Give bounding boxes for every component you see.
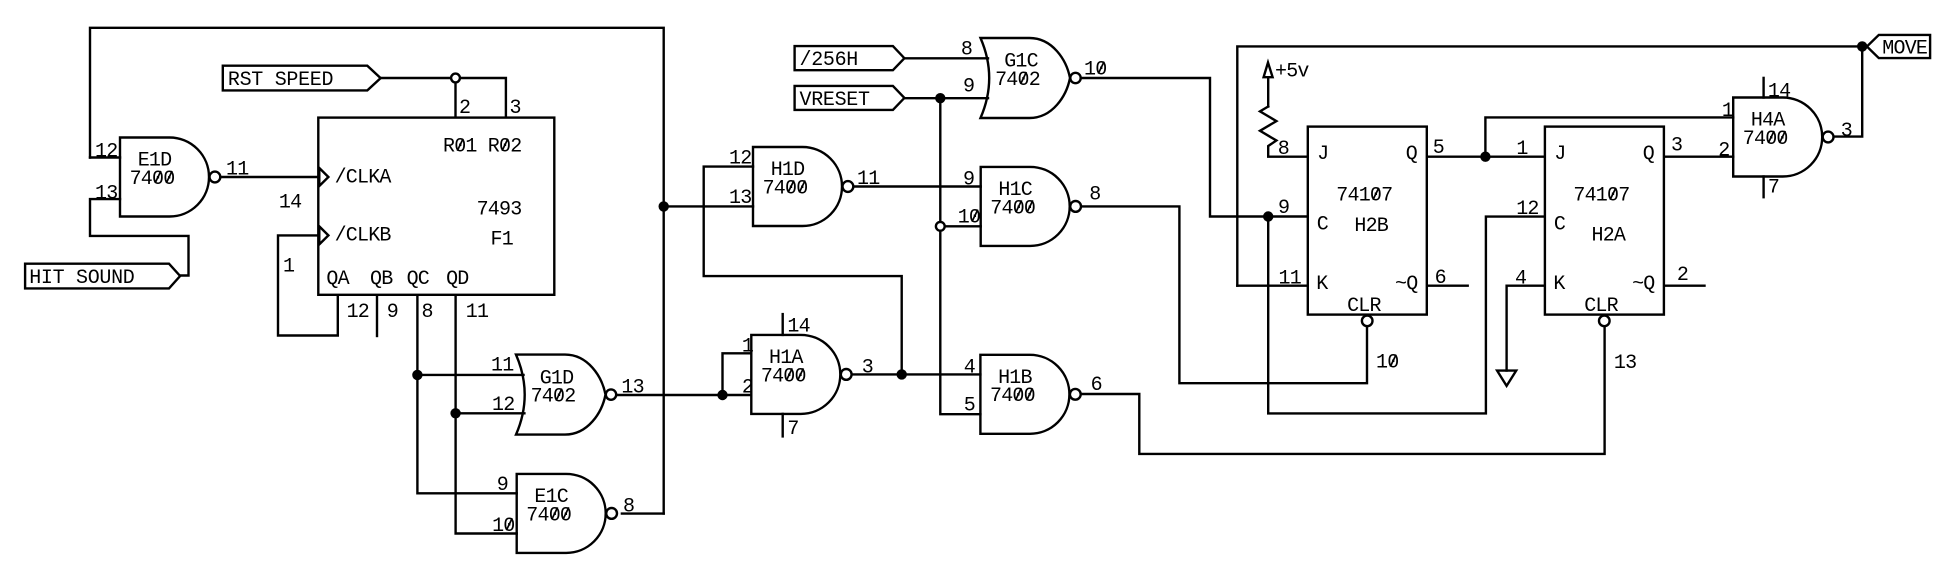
svg-text:8: 8 (1089, 184, 1101, 207)
svg-text:7: 7 (787, 418, 799, 441)
svg-text:3: 3 (862, 356, 874, 379)
node open junction H1C.10 (936, 222, 945, 231)
svg-text:3: 3 (1671, 135, 1683, 158)
pin label E1C.10 (492, 515, 515, 538)
op-amp gate E1D 7400 NAND (120, 138, 220, 217)
svg-text:E: E (1916, 38, 1928, 61)
pin label H4A.14 (1768, 81, 1791, 104)
node junction clock branch (1263, 211, 1273, 221)
node junction QD/G1D.12 (450, 408, 460, 418)
svg-text:O: O (88, 267, 100, 290)
svg-text:B: B (1377, 215, 1389, 238)
node junction at H1D.13 branch (659, 201, 669, 211)
pin label G1D.12 (492, 394, 515, 417)
pin label G1D.11 (491, 355, 514, 378)
svg-text:1: 1 (1596, 185, 1608, 208)
svg-text:K: K (1316, 273, 1328, 296)
svg-text:C: C (346, 167, 358, 190)
svg-text:0: 0 (560, 504, 572, 527)
pin label H1D.11 (857, 168, 880, 191)
svg-text:0: 0 (503, 515, 515, 538)
svg-text:4: 4 (141, 168, 153, 191)
svg-text:0: 0 (1024, 385, 1036, 408)
svg-text:T: T (53, 267, 65, 290)
node RST SPEED input flag (223, 66, 381, 93)
svg-text:T: T (251, 69, 263, 92)
pin label F1.3 (510, 97, 522, 120)
svg-text:7: 7 (1768, 177, 1780, 200)
svg-text:5: 5 (823, 49, 835, 72)
svg-text:9: 9 (963, 76, 975, 99)
svg-text:8: 8 (623, 496, 635, 519)
svg-text:S: S (240, 69, 252, 92)
wire H2B.5 Q to H2A.1 J and H4A.1 (1426, 117, 1733, 156)
svg-text:R: R (811, 89, 823, 112)
pin label F1.11 QD (466, 301, 489, 324)
wire E1D.11 output to 7493 CLKA (221, 176, 319, 178)
svg-text:2: 2 (358, 301, 370, 324)
pin label F1.8 QC (422, 301, 434, 324)
svg-text:D: D (457, 268, 469, 291)
pin label G1C.8 (961, 39, 973, 62)
gate G1D 7402 NOR (516, 355, 616, 435)
node HIT SOUND output flag (25, 264, 180, 290)
pin label H4A.3 (1841, 120, 1853, 143)
svg-text:1: 1 (1722, 100, 1734, 123)
pin label H4A.7 (1768, 177, 1780, 200)
svg-text:3: 3 (740, 187, 752, 210)
svg-text:C: C (346, 225, 358, 248)
svg-text:7: 7 (526, 504, 538, 527)
pin label E1D.11 (226, 159, 249, 182)
svg-text:1: 1 (465, 136, 477, 159)
svg-text:U: U (99, 267, 111, 290)
svg-text:4: 4 (542, 386, 554, 409)
wire H1C.8 output to H2B CLR pin 10 (1081, 206, 1367, 383)
svg-text:0: 0 (1776, 128, 1788, 151)
svg-text:1: 1 (742, 335, 754, 358)
svg-text:0: 0 (1387, 352, 1399, 375)
svg-text:4: 4 (774, 177, 786, 200)
svg-text:9: 9 (963, 169, 975, 192)
flip-flop H2B 74107 (1308, 127, 1427, 327)
pin label H2B.9 (1278, 197, 1290, 220)
svg-text:J: J (1554, 143, 1566, 166)
pin label F1.14 (279, 191, 302, 214)
pin label H2B.5 (1433, 137, 1445, 160)
svg-text:1: 1 (1516, 138, 1528, 161)
svg-text:S: S (835, 89, 847, 112)
svg-text:E: E (846, 89, 858, 112)
svg-text:B: B (379, 225, 391, 248)
gate H1A 7400 NAND (751, 335, 851, 414)
gate H4A 7400 NAND (1733, 98, 1833, 177)
svg-text:Q: Q (1406, 273, 1418, 296)
gate H1C 7400 NAND (981, 167, 1081, 246)
pin label H1D.12 (729, 148, 752, 171)
svg-text:4: 4 (1779, 81, 1791, 104)
svg-text:3: 3 (633, 377, 645, 400)
svg-text:2: 2 (811, 49, 823, 72)
svg-text:4: 4 (964, 356, 976, 379)
pin label H2B.8 (1278, 138, 1290, 161)
svg-text:7: 7 (1618, 185, 1630, 208)
svg-text:2: 2 (510, 136, 522, 159)
svg-text:K: K (1553, 273, 1565, 296)
svg-text:C: C (418, 268, 430, 291)
pin label H4A.2 (1718, 140, 1730, 163)
svg-text:N: N (111, 267, 123, 290)
svg-text:2: 2 (1029, 69, 1041, 92)
svg-text:6: 6 (1435, 267, 1447, 290)
pin label E1D.12 (95, 141, 118, 164)
wire H1D.11 output to H1C.9 (853, 185, 981, 187)
svg-text:2: 2 (1677, 264, 1689, 287)
pin label H1A.14 (787, 316, 810, 339)
wire G1D.13 output to H1A inputs (616, 353, 751, 395)
wire H1D pin 13 stub (664, 205, 753, 207)
pin label H4A.1 (1722, 100, 1734, 123)
svg-text:A: A (1614, 225, 1626, 248)
svg-text:0: 0 (795, 365, 807, 388)
svg-text:H: H (29, 267, 41, 290)
svg-text:R: R (488, 136, 500, 159)
gate G1C 7402 NOR (981, 38, 1081, 118)
wire QD pin 11 to G1D.12 and E1C.10 (456, 295, 525, 534)
node junction H1A pins 1/2 (717, 390, 727, 400)
svg-text:6: 6 (1091, 374, 1103, 397)
pin label H1A.3 (862, 356, 874, 379)
svg-text:Q: Q (1643, 273, 1655, 296)
pin label H1B.4 (964, 356, 976, 379)
wire H2B ~Q pin 6 stub (1426, 285, 1468, 287)
wire H2A ~Q pin 2 stub (1664, 285, 1704, 287)
pin label G1D.13 (621, 377, 644, 400)
svg-text:E: E (310, 69, 322, 92)
pin label G1C.9 (963, 76, 975, 99)
node junction VRESET (935, 93, 945, 103)
svg-text:R: R (228, 69, 240, 92)
pin label H2A.1 (1516, 138, 1528, 161)
flip-flop H2A 74107 (1545, 127, 1664, 327)
svg-text:M: M (1882, 38, 1894, 61)
pin label H2A.2 (1677, 264, 1689, 287)
pin label G1C.10 (1084, 59, 1107, 82)
svg-text:3: 3 (510, 199, 522, 222)
svg-text:9: 9 (387, 301, 399, 324)
svg-text:5: 5 (1433, 137, 1445, 160)
svg-text:1: 1 (868, 168, 880, 191)
node /256H input flag (795, 46, 905, 72)
pin label H1A.1 (742, 335, 754, 358)
wire H1B.6 output to H2A CLR pin 13 (1080, 326, 1604, 454)
svg-text:4: 4 (1006, 69, 1018, 92)
svg-text:1: 1 (283, 256, 295, 279)
svg-text:H: H (846, 49, 858, 72)
svg-text:T: T (858, 89, 870, 112)
svg-text:1: 1 (466, 301, 478, 324)
wire H1A pin 7 ground stub (782, 414, 784, 437)
wire E1C.8 output (622, 512, 664, 514)
svg-text:4: 4 (290, 191, 302, 214)
svg-text:3: 3 (1841, 120, 1853, 143)
pin label F1.9 QB (387, 301, 399, 324)
svg-text:4: 4 (488, 199, 500, 222)
svg-text:C: C (1317, 213, 1329, 236)
pin label H1A.2 (742, 377, 754, 400)
svg-text:D: D (322, 69, 334, 92)
pin label H1C.9 (963, 169, 975, 192)
wire H2A.3 Q to H4A.2 (1664, 155, 1733, 157)
svg-text:J: J (1317, 143, 1329, 166)
wire E1D pin 12 stub (90, 156, 120, 158)
pin label F1.2 (459, 97, 471, 120)
svg-text:P: P (286, 69, 298, 92)
svg-text:0: 0 (969, 207, 981, 230)
svg-text:I: I (41, 267, 53, 290)
pin label H2B.10 CLR (1376, 352, 1399, 375)
wire H1A pin 14 power stub (782, 314, 784, 335)
svg-text:1: 1 (502, 355, 514, 378)
node junction QC/G1D.11 (412, 370, 422, 380)
svg-text:E: E (298, 69, 310, 92)
svg-text:2: 2 (1527, 198, 1539, 221)
svg-text:R: R (1607, 295, 1619, 318)
svg-text:R: R (1370, 295, 1382, 318)
wire H2A.4 K to ground (1507, 286, 1545, 371)
resistor pull-up to H2B.8 (1260, 107, 1308, 157)
svg-text:0: 0 (163, 168, 175, 191)
pin label H1A.7 (787, 418, 799, 441)
pin label H1C.8 (1089, 184, 1101, 207)
power +5v symbol (1264, 61, 1310, 107)
pin label H1B.6 (1091, 374, 1103, 397)
svg-text:4: 4 (799, 316, 811, 339)
svg-text:3: 3 (106, 182, 118, 205)
svg-text:v: v (1297, 61, 1309, 84)
pin label F1.1 (283, 256, 295, 279)
wire E1D pin 13 to HIT SOUND (90, 199, 189, 275)
pin label E1D.13 (95, 182, 118, 205)
wire RST SPEED to pins 2,3 (381, 78, 506, 118)
svg-text:8: 8 (422, 301, 434, 324)
node junction MOVE (1857, 41, 1867, 51)
wire QA feedback to CLKB pin 1 (278, 235, 338, 335)
counter F1 7493 (318, 118, 554, 295)
pin label H2A.3 (1671, 135, 1683, 158)
svg-text:2: 2 (503, 394, 515, 417)
node junction H1A.3/H1D.12/H1B.4 (897, 369, 907, 379)
svg-text:3: 3 (510, 97, 522, 120)
node MOVE output flag (1867, 35, 1930, 61)
node junction Q5/J1 (1480, 152, 1490, 162)
svg-text:8: 8 (961, 39, 973, 62)
svg-text:9: 9 (497, 474, 509, 497)
svg-text:2: 2 (1718, 140, 1730, 163)
svg-text:2: 2 (459, 97, 471, 120)
wire /256H to G1C.8 (904, 57, 988, 59)
svg-text:1: 1 (237, 159, 249, 182)
svg-text:D: D (123, 267, 135, 290)
wire H4A.3 output to H2B.11 K feedback and MOVE (1237, 46, 1862, 285)
svg-text:1: 1 (477, 301, 489, 324)
ground symbol (1497, 371, 1516, 386)
wire QB pin 9 stub (376, 295, 378, 336)
svg-text:2: 2 (742, 377, 754, 400)
svg-text:E: E (823, 89, 835, 112)
wire H1D pin 12 to H1B.4 node (704, 167, 902, 375)
wire VRESET to G1C.9, H1C.10, H1B.5 (904, 98, 988, 414)
svg-text:2: 2 (106, 141, 118, 164)
svg-text:8: 8 (1278, 138, 1290, 161)
svg-text:1: 1 (502, 229, 514, 252)
wire net E1C.8 to E1D.12 top loop (90, 28, 664, 514)
pin label H2A.4 (1515, 268, 1527, 291)
svg-text:Q: Q (1406, 143, 1418, 166)
svg-text:0: 0 (796, 177, 808, 200)
pin label H2A.12 (1516, 198, 1539, 221)
pin label F1.12 QA (347, 301, 370, 324)
wire G1C.10 output to 74107 clock C inputs (1081, 78, 1545, 413)
svg-text:C: C (1554, 213, 1566, 236)
svg-text:7: 7 (1336, 185, 1348, 208)
svg-text:/: / (800, 49, 812, 72)
pin label H1B.5 (964, 395, 976, 418)
svg-text:4: 4 (1515, 268, 1527, 291)
svg-text:6: 6 (835, 49, 847, 72)
svg-text:7: 7 (1743, 128, 1755, 151)
gate H1B 7400 NAND (980, 355, 1080, 434)
svg-text:9: 9 (1278, 197, 1290, 220)
node VRESET input flag (795, 86, 905, 112)
svg-text:7: 7 (990, 197, 1002, 220)
pin label E1C.8 (623, 496, 635, 519)
svg-text:S: S (275, 69, 287, 92)
pin label E1C.9 (497, 474, 509, 497)
pin label H2A.13 CLR (1614, 352, 1637, 375)
svg-text:V: V (800, 89, 812, 112)
svg-text:0: 0 (783, 365, 795, 388)
wire H4A pin 14 power stub (1762, 78, 1764, 98)
svg-text:S: S (76, 267, 88, 290)
svg-text:2: 2 (564, 386, 576, 409)
svg-text:7: 7 (1381, 185, 1393, 208)
svg-text:Q: Q (1643, 143, 1655, 166)
svg-text:A: A (379, 167, 391, 190)
svg-text:3: 3 (1625, 352, 1637, 375)
svg-text:0: 0 (1024, 197, 1036, 220)
gate H1D 7400 NAND (753, 147, 853, 226)
wire H1A.3 output to H1B.4 (852, 373, 981, 375)
pin label H2B.11 (1279, 268, 1302, 291)
svg-text:1: 1 (1290, 268, 1302, 291)
wire H4A pin 7 ground stub (1762, 177, 1764, 198)
svg-text:2: 2 (740, 148, 752, 171)
wire QC pin 8 to G1D.11 and E1C.9 (417, 295, 523, 494)
gate E1C 7400 NAND (517, 474, 617, 553)
svg-text:0: 0 (1095, 59, 1107, 82)
pin label H2B.6 (1435, 267, 1447, 290)
pin label H1C.10 (958, 207, 981, 230)
svg-text:A: A (338, 268, 350, 291)
svg-text:5: 5 (964, 395, 976, 418)
svg-text:B: B (381, 268, 393, 291)
pin label H1D.13 (729, 187, 752, 210)
node open junction RST SPEED (451, 74, 460, 83)
